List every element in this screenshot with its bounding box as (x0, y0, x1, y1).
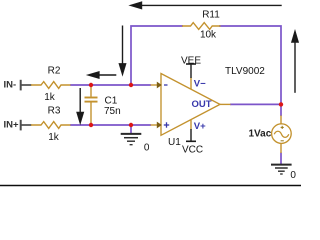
svg-text:OUT: OUT (192, 99, 212, 110)
svg-text:1Vac: 1Vac (249, 129, 272, 140)
svg-text:VCC: VCC (182, 144, 203, 155)
svg-text:R11: R11 (202, 10, 220, 21)
svg-text:V+: V+ (194, 121, 206, 132)
svg-text:75n: 75n (104, 106, 121, 117)
svg-text:10k: 10k (200, 30, 217, 41)
svg-text:0: 0 (290, 170, 296, 181)
svg-text:1k: 1k (48, 132, 60, 143)
svg-text:IN-: IN- (4, 80, 17, 91)
svg-text:V−: V− (194, 78, 206, 89)
svg-text:TLV9002: TLV9002 (225, 66, 265, 77)
svg-text:IN+: IN+ (4, 120, 20, 131)
svg-text:R2: R2 (48, 66, 61, 77)
svg-text:U1: U1 (168, 137, 181, 148)
svg-text:VEE: VEE (181, 55, 201, 66)
svg-text:R3: R3 (48, 106, 61, 117)
svg-text:1k: 1k (44, 92, 56, 103)
svg-text:0: 0 (144, 143, 150, 154)
